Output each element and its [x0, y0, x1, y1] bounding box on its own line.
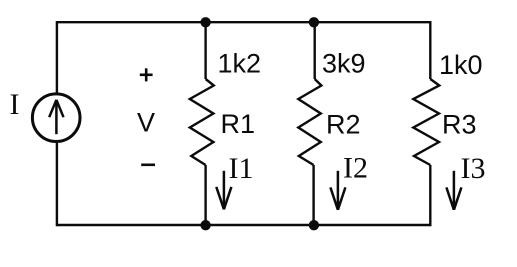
wire right branch lower [429, 165, 431, 226]
label + (plus sign of V) [140, 68, 153, 81]
resistor R3 [413, 79, 439, 165]
wire right branch upper [429, 21, 431, 79]
svg-text:V: V [137, 108, 155, 138]
svg-text:R3: R3 [442, 109, 477, 139]
wire bottom rail [57, 224, 430, 226]
svg-text:I2: I2 [343, 151, 368, 184]
svg-text:I1: I1 [229, 152, 254, 185]
svg-text:R2: R2 [326, 109, 361, 139]
node dot top R1 [200, 17, 210, 27]
current source arrow [49, 100, 63, 134]
svg-text:I3: I3 [461, 152, 486, 185]
wire left branch lower [56, 142, 58, 226]
label minus sign of V [141, 164, 155, 167]
svg-text:1k2: 1k2 [218, 49, 262, 79]
wire top rail [57, 21, 430, 23]
wire R2 branch lower [312, 165, 314, 225]
node dot top R2 [309, 17, 319, 27]
resistor R2 [298, 79, 321, 165]
current source U1 circle [32, 94, 80, 142]
wire left branch upper [56, 21, 58, 93]
arrow I1 [216, 171, 231, 210]
resistor R1 [190, 79, 214, 165]
arrow I3 [446, 171, 461, 210]
wire R1 branch upper [204, 22, 206, 79]
svg-text:1k0: 1k0 [439, 50, 483, 80]
svg-text:R1: R1 [221, 109, 256, 139]
arrow I2 [330, 171, 345, 210]
svg-text:3k9: 3k9 [322, 49, 366, 79]
wire R1 branch lower [204, 165, 206, 225]
wire R2 branch upper [314, 22, 316, 79]
node dot bottom R1 [200, 220, 210, 230]
node dot bottom R2 [309, 220, 319, 230]
svg-text:I: I [10, 88, 20, 121]
